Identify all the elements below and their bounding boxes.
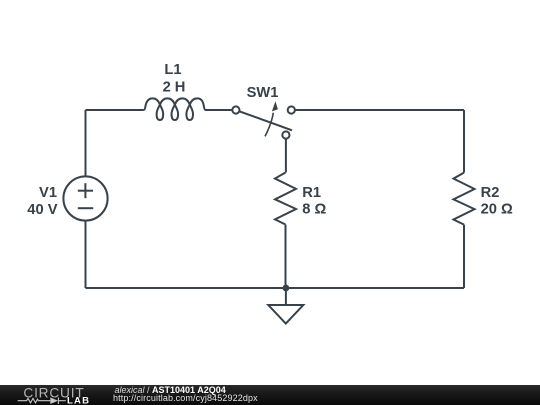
svg-text:20 Ω: 20 Ω xyxy=(481,202,513,218)
svg-text:2 H: 2 H xyxy=(163,79,186,95)
wire left rail upper xyxy=(85,110,87,176)
switch SW1 right throw terminal xyxy=(288,106,295,113)
node junction at ground xyxy=(283,285,290,292)
switch SW1 pole terminal xyxy=(232,106,239,113)
footer url xyxy=(113,393,258,403)
resistor R2 xyxy=(454,173,475,225)
svg-text:SW1: SW1 xyxy=(247,85,279,101)
voltage source V1 xyxy=(63,176,107,220)
ground xyxy=(285,288,287,305)
wire right rail upper xyxy=(463,110,465,173)
wire inductor to switch xyxy=(206,109,233,111)
resistor R1 xyxy=(275,173,296,225)
switch SW1 blade xyxy=(239,111,292,130)
switch SW1 actuation arrow xyxy=(265,113,273,137)
svg-text:R1: R1 xyxy=(302,185,321,201)
footer attribution text xyxy=(115,385,226,395)
wire switch bottom to R1 xyxy=(285,139,287,173)
svg-text:V1: V1 xyxy=(39,185,57,201)
svg-text:40 V: 40 V xyxy=(27,202,57,218)
wire R1 to bottom rail xyxy=(285,225,287,289)
svg-text:LAB: LAB xyxy=(67,396,90,405)
wire switch to top-right corner xyxy=(295,109,464,111)
svg-text:R2: R2 xyxy=(481,185,500,201)
footer bar xyxy=(0,385,540,405)
wire top-left (V1 top to inductor) xyxy=(86,109,144,111)
CircuitLab logo xyxy=(0,383,100,405)
wire left rail lower xyxy=(85,221,87,288)
svg-text:L1: L1 xyxy=(164,62,181,78)
switch SW1 bottom throw terminal xyxy=(282,131,289,138)
wire right rail lower xyxy=(463,225,465,288)
inductor L1 xyxy=(144,98,206,120)
wire bottom rail xyxy=(86,287,465,289)
svg-text:8 Ω: 8 Ω xyxy=(302,202,326,218)
